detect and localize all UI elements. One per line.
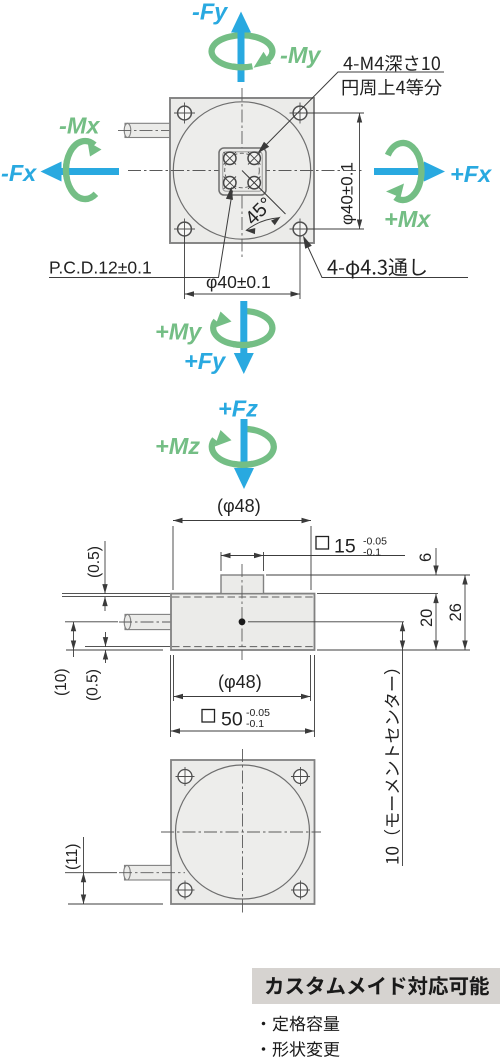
svg-text:φ40±0.1: φ40±0.1 <box>338 162 357 225</box>
moment arrow -My ring back <box>212 35 273 67</box>
label 10 moment center <box>384 670 400 864</box>
dim (phi48) top <box>173 496 311 590</box>
side view: moment center line <box>248 621 404 623</box>
label square 15 <box>316 536 387 559</box>
svg-text:6: 6 <box>417 553 435 562</box>
leader 4-phi4.3 <box>303 236 468 278</box>
svg-text:-My: -My <box>280 42 322 68</box>
side view: main body <box>171 594 315 650</box>
force arrow -Fy <box>231 12 251 83</box>
bottom view: center lines <box>161 749 321 914</box>
force arrow -Fx <box>41 162 120 182</box>
svg-text:(0.5): (0.5) <box>85 669 102 701</box>
dim (phi48) bottom <box>174 655 311 701</box>
svg-text:+Mx: +Mx <box>384 206 431 232</box>
right extension lines <box>266 575 470 650</box>
dim 15 boss <box>221 552 405 571</box>
ext line body bottom left <box>66 649 163 651</box>
svg-text:(φ48): (φ48) <box>218 672 262 692</box>
moment arrow +Mz ring front and head <box>233 461 252 468</box>
bottom view: cable <box>119 865 185 880</box>
top view: center boss square <box>219 148 266 195</box>
svg-text:+Fx: +Fx <box>450 161 492 187</box>
leader 4-M4 <box>258 72 445 154</box>
label 4-M4 text <box>343 55 440 72</box>
svg-text:-Fy: -Fy <box>192 0 229 25</box>
ext line hidden bottom left <box>85 646 170 648</box>
label square 50 <box>202 707 270 731</box>
moment arrow -Mx ring front and head <box>63 161 70 179</box>
dim phi40 vertical <box>307 113 364 229</box>
footer: bullet keijou henkou <box>262 1041 340 1057</box>
side view: moment center dot <box>239 618 246 625</box>
dim (0.5) top <box>86 541 108 611</box>
moment arrow +Mx ring <box>388 143 422 200</box>
top view: center lines <box>128 88 362 258</box>
dim (0.5) bottom <box>85 632 109 701</box>
svg-text:+Fz: +Fz <box>218 396 258 422</box>
svg-text:+My: +My <box>155 319 203 345</box>
moment arrow +Mz ring <box>212 429 274 465</box>
dim (11) <box>64 837 163 904</box>
svg-text:(10): (10) <box>53 668 70 696</box>
side view: center line <box>241 564 243 660</box>
moment arrow +My ring <box>213 311 272 345</box>
svg-text:20: 20 <box>418 609 436 627</box>
force arrow +Fx <box>374 162 445 182</box>
svg-text:φ40±0.1: φ40±0.1 <box>206 272 271 292</box>
dim 10 moment center <box>400 622 405 866</box>
svg-text:-0.1: -0.1 <box>363 547 381 559</box>
bottom view: circle <box>176 765 310 899</box>
dim phi40 horizontal <box>185 236 301 299</box>
side view: boss <box>221 575 264 594</box>
moment arrow -Mx ring <box>66 141 96 199</box>
top view: cable <box>118 123 183 137</box>
bottom view: 4 corner holes <box>176 767 195 786</box>
force arrow +Fy <box>234 301 254 374</box>
moment arrow +My ring front and head <box>234 341 252 348</box>
side view: hidden dashed lines <box>172 597 314 647</box>
leader P.C.D.12 <box>49 187 233 278</box>
svg-text:P.C.D.12±0.1: P.C.D.12±0.1 <box>49 258 152 278</box>
svg-text:+Mz: +Mz <box>155 433 200 459</box>
top view: main circle phi48 <box>173 102 310 239</box>
moment arrow -My ring front and head <box>233 63 253 70</box>
dim 26 <box>447 575 468 650</box>
top view: P.C.D.12 dashed circle <box>225 153 260 188</box>
svg-text:15: 15 <box>334 536 356 558</box>
svg-text:50: 50 <box>221 709 243 731</box>
svg-text:-0.1: -0.1 <box>246 718 264 730</box>
footer: gray header bar <box>252 968 500 1004</box>
top view: 4 corner holes 4.3 <box>174 103 195 124</box>
side view: cable <box>119 614 185 629</box>
footer: custom made title <box>266 976 489 995</box>
45 degree annotation <box>241 171 286 235</box>
svg-text:-Mx: -Mx <box>59 113 100 139</box>
top view: 4 M4 screw holes <box>224 152 236 164</box>
dim (10) left <box>53 622 76 696</box>
svg-text:(0.5): (0.5) <box>86 546 103 578</box>
ext line cable center left <box>65 621 118 623</box>
dim 6 <box>417 548 439 575</box>
dim 20 <box>418 594 439 650</box>
svg-text:+Fy: +Fy <box>184 348 227 374</box>
svg-text:(φ48): (φ48) <box>217 496 261 516</box>
svg-text:26: 26 <box>447 603 465 621</box>
footer: bullet teikaku youryou <box>262 1016 340 1032</box>
top view: square flange body <box>170 98 314 243</box>
dim square50 <box>171 655 315 737</box>
svg-text:-Fx: -Fx <box>1 160 37 186</box>
left ext lines top <box>62 594 170 597</box>
moment arrow +Mx ring front and head <box>417 163 424 181</box>
bottom view: square flange <box>171 760 315 904</box>
svg-text:(11): (11) <box>64 844 81 870</box>
